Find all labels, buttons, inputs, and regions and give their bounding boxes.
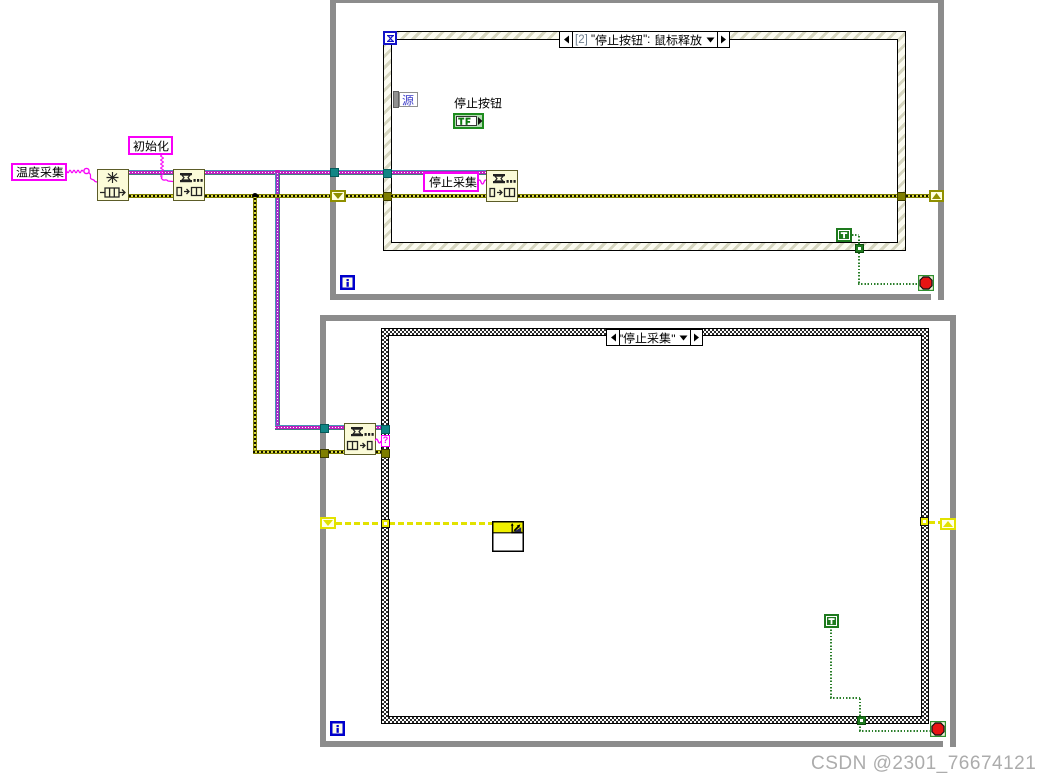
- while loop 2 iteration terminal i: [330, 721, 345, 736]
- wire: error cluster node1 to node2: [129, 194, 173, 198]
- node: enqueue element U3 in event: [486, 170, 518, 202]
- tunnel: queue on loop2 left border: [320, 424, 329, 433]
- node: obtain queue U1: [97, 169, 129, 201]
- terminal: waveform chart: [492, 521, 524, 552]
- wire: error from event right tunnel to right shift register: [906, 194, 929, 198]
- wire: error stub dequeue to case tunnel: [376, 450, 382, 454]
- node: error wire branch junction: [252, 193, 258, 199]
- wire: string squiggle 停止采集 to enqueue node: [478, 177, 488, 187]
- wire: error cluster vertical branch down: [253, 197, 257, 452]
- constant: TRUE T in case: [824, 614, 839, 628]
- wire: queue stub dequeue to case tunnel: [376, 425, 382, 430]
- while loop 2 corner notch: [943, 740, 950, 747]
- wire: error cluster horizontal into bottom loop: [253, 450, 321, 454]
- tunnel: boolean on case bottom border: [857, 716, 866, 725]
- event structure frame: [383, 31, 906, 251]
- node: dequeue element U4: [344, 423, 376, 455]
- wire: queue refnum node2 to top loop tunnel: [205, 170, 331, 175]
- node: queue wire branch junction: [275, 170, 280, 175]
- wire: error from shift register to event tunnel: [346, 194, 384, 198]
- event data node 源: [393, 91, 399, 108]
- while loop 1 border: [330, 0, 944, 300]
- wire: string squiggle dequeue to case selector tunnel: [375, 436, 383, 446]
- wire: boolean dotted T to stop terminal: [852, 234, 859, 236]
- tunnel: queue on case left border: [381, 425, 390, 434]
- wire: array from shift register to case tunnel: [336, 522, 381, 525]
- tunnel: error on event left border: [383, 192, 392, 201]
- event structure inner area: [391, 39, 898, 243]
- while loop 2 stop condition terminal: [930, 721, 946, 737]
- while loop 1 stop condition terminal: [918, 275, 934, 291]
- shift register right (error) on top loop: [929, 190, 944, 202]
- label: 温度采集 string constant: [11, 163, 67, 181]
- label: 停止按钮: [454, 97, 504, 109]
- tunnel: array on case left border: [381, 519, 390, 528]
- while loop 1 corner notch: [931, 293, 938, 300]
- wire: string squiggle from 初始化 down to enqueue node: [156, 155, 176, 185]
- while loop 1 iteration terminal i: [340, 275, 355, 290]
- label: 初始化 string constant: [128, 136, 173, 155]
- case selector text "停止采集": [619, 332, 679, 345]
- case structure inner area: [388, 335, 922, 717]
- shift register left (array) on loop2: [320, 517, 336, 529]
- wire: string squiggle from 温度采集 label: [65, 165, 101, 185]
- shift register left (error) on top loop: [330, 190, 346, 202]
- wire: queue refnum horizontal into bottom loop: [275, 425, 321, 430]
- watermark: [811, 753, 1036, 775]
- wire: array inside case to chart terminal: [389, 522, 492, 525]
- wire: queue refnum node1 to node2: [129, 170, 173, 175]
- tunnel: queue on top loop left border: [330, 168, 339, 177]
- while loop 2 border: [320, 315, 956, 747]
- tunnel: error on loop2 left border: [320, 449, 329, 458]
- case selector label: [606, 329, 703, 346]
- wire: error inside event to enqueue node: [391, 194, 486, 198]
- wire: error cluster node2 to top loop shift register: [205, 194, 331, 198]
- constant: TRUE T in event: [836, 228, 852, 242]
- case structure frame: [381, 328, 929, 724]
- tunnel: error on case left border: [381, 449, 390, 458]
- wire: array case right tunnel to shift register: [929, 521, 940, 524]
- wire: queue inside loop2 to dequeue node: [329, 425, 346, 430]
- terminal: 停止按钮 TF boolean: [453, 113, 484, 129]
- shift register right (array) on loop2: [940, 518, 956, 530]
- wire: boolean dotted T to stop terminal loop2: [830, 628, 832, 698]
- wire: queue inside event to enqueue node: [392, 170, 486, 175]
- tunnel: case selector ?: [381, 435, 390, 447]
- wire: error inside loop2 to dequeue node: [329, 450, 346, 454]
- node: enqueue element U2: [173, 169, 205, 201]
- label: 停止采集 string constant: [423, 172, 479, 192]
- tunnel: boolean on event bottom border: [855, 244, 864, 253]
- wire: error from enqueue node to right tunnel: [518, 194, 897, 198]
- tunnel: error on event right border: [897, 192, 906, 201]
- event selector label: [559, 31, 730, 48]
- tunnel: array on case right border: [920, 517, 929, 526]
- wire: queue into top loop tunnel to event tunnel: [339, 170, 384, 175]
- event timeout terminal: [383, 31, 397, 45]
- tunnel: queue on event left border: [383, 169, 392, 178]
- event selector text [2] "停止按钮": 鼠标释放: [575, 34, 705, 47]
- wire: queue refnum vertical branch down: [275, 173, 280, 429]
